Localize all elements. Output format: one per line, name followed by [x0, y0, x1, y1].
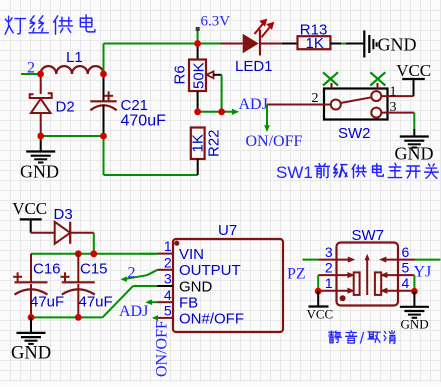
svg-text:2: 2: [27, 60, 35, 77]
svg-text:6.3V: 6.3V: [201, 13, 231, 29]
svg-text:YJ: YJ: [414, 264, 432, 281]
svg-text:VCC: VCC: [396, 61, 431, 80]
svg-text:2: 2: [128, 265, 136, 282]
svg-text:SW7: SW7: [352, 227, 385, 244]
svg-text:ON/OFF: ON/OFF: [246, 133, 303, 150]
svg-text:GND: GND: [11, 343, 51, 363]
svg-text:3: 3: [390, 100, 397, 115]
svg-text:3: 3: [325, 244, 333, 260]
svg-text:C21: C21: [121, 97, 149, 114]
svg-text:GND: GND: [179, 278, 213, 295]
svg-text:ON#/OFF: ON#/OFF: [179, 310, 244, 327]
svg-text:2: 2: [164, 254, 172, 270]
svg-text:/: /: [360, 331, 365, 348]
svg-text:2: 2: [312, 91, 319, 106]
svg-text:GND: GND: [378, 35, 417, 55]
svg-text:OUTPUT: OUTPUT: [179, 262, 241, 279]
svg-text:VCC: VCC: [12, 199, 47, 218]
svg-text:ADJ: ADJ: [239, 96, 268, 113]
svg-text:GND: GND: [401, 317, 429, 332]
svg-text:1K: 1K: [306, 35, 324, 52]
svg-text:47uF: 47uF: [30, 294, 64, 311]
svg-text:VIN: VIN: [179, 246, 204, 263]
svg-text:C15: C15: [80, 261, 108, 278]
svg-text:1: 1: [325, 275, 333, 291]
svg-text:3: 3: [164, 271, 172, 287]
svg-text:C16: C16: [33, 261, 61, 278]
svg-text:SW2: SW2: [338, 125, 371, 142]
svg-text:GND: GND: [395, 144, 434, 164]
svg-text:LED1: LED1: [235, 58, 273, 75]
svg-text:4: 4: [402, 275, 410, 291]
svg-text:5: 5: [402, 259, 410, 275]
svg-text:ADJ: ADJ: [119, 303, 148, 320]
svg-text:50K: 50K: [190, 62, 207, 89]
svg-text:4: 4: [164, 287, 172, 303]
svg-text:ON/OFF: ON/OFF: [153, 320, 170, 377]
svg-text:GND: GND: [20, 162, 59, 182]
svg-text:R6: R6: [172, 65, 189, 84]
svg-text:D2: D2: [56, 99, 75, 116]
svg-text:FB: FB: [179, 295, 198, 312]
svg-text:6: 6: [402, 244, 410, 260]
svg-text:R22: R22: [206, 129, 223, 157]
svg-text:PZ: PZ: [287, 266, 306, 283]
svg-text:470uF: 470uF: [121, 113, 167, 130]
svg-text:1: 1: [164, 238, 172, 254]
svg-text:VCC: VCC: [307, 307, 334, 322]
svg-text:L1: L1: [66, 49, 83, 66]
svg-text:47uF: 47uF: [79, 294, 113, 311]
svg-text:SW1: SW1: [276, 163, 313, 182]
svg-text:2: 2: [325, 259, 333, 275]
svg-text:U7: U7: [218, 222, 237, 239]
svg-text:D3: D3: [54, 206, 73, 223]
svg-text:1K: 1K: [190, 134, 207, 152]
svg-text:5: 5: [164, 303, 172, 319]
svg-text:1: 1: [390, 85, 397, 100]
